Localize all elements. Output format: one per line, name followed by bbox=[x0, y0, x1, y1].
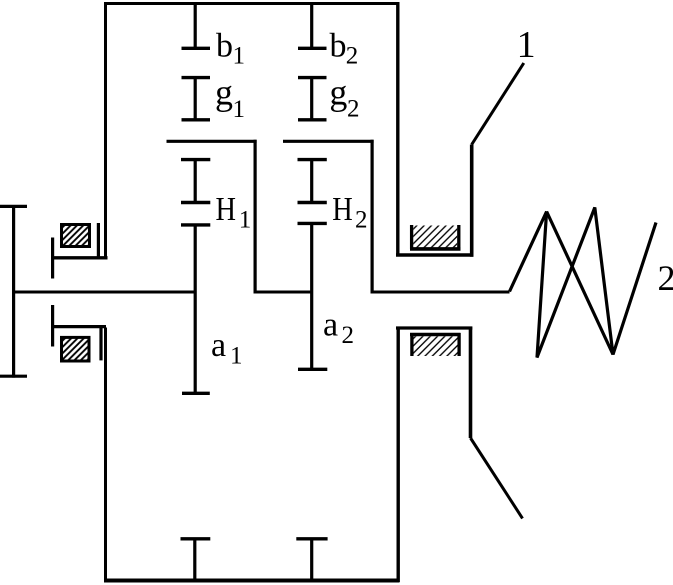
svg-text:H: H bbox=[332, 191, 353, 228]
svg-text:a: a bbox=[323, 307, 338, 344]
svg-text:2: 2 bbox=[347, 96, 360, 123]
svg-text:2: 2 bbox=[658, 258, 673, 298]
svg-text:2: 2 bbox=[342, 322, 355, 349]
svg-text:2: 2 bbox=[355, 206, 368, 233]
svg-text:2: 2 bbox=[346, 42, 359, 69]
svg-text:1: 1 bbox=[233, 96, 246, 123]
svg-text:b: b bbox=[330, 28, 347, 65]
svg-text:1: 1 bbox=[230, 342, 243, 369]
svg-text:H: H bbox=[216, 191, 237, 228]
svg-text:1: 1 bbox=[233, 42, 246, 69]
svg-text:g: g bbox=[215, 73, 233, 113]
svg-text:1: 1 bbox=[239, 206, 252, 233]
svg-text:b: b bbox=[216, 28, 233, 65]
svg-text:1: 1 bbox=[517, 24, 536, 66]
svg-text:a: a bbox=[211, 327, 226, 364]
svg-text:g: g bbox=[329, 73, 347, 113]
